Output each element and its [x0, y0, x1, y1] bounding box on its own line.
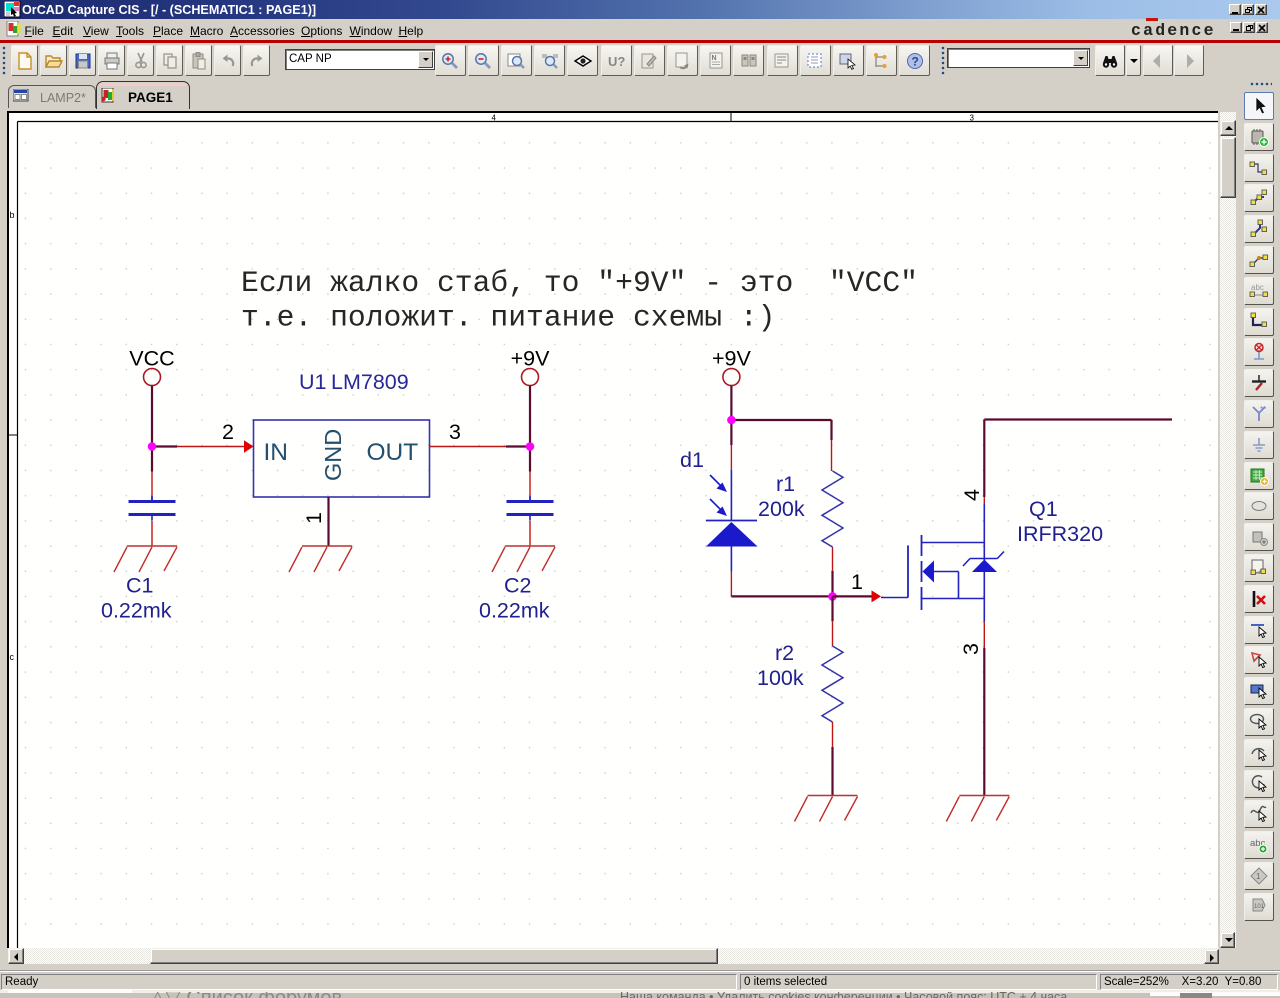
svg-text:VCC: VCC — [129, 347, 174, 371]
svg-text:4: 4 — [492, 114, 497, 123]
svg-text:4: 4 — [960, 489, 984, 501]
svg-text:1: 1 — [302, 512, 326, 524]
svg-text:1: 1 — [851, 570, 863, 594]
svg-text:200k: 200k — [758, 497, 805, 521]
svg-text:C1: C1 — [126, 574, 153, 598]
svg-text:r2: r2 — [775, 641, 794, 665]
svg-text:Если жалко стаб, то "+9V" - эт: Если жалко стаб, то "+9V" - это "VCC" — [241, 266, 918, 300]
svg-text:IRFR320: IRFR320 — [1017, 522, 1103, 546]
svg-text:C2: C2 — [504, 574, 531, 598]
svg-text:OUT: OUT — [367, 439, 419, 466]
svg-text:d1: d1 — [680, 448, 704, 472]
svg-text:2: 2 — [222, 420, 234, 444]
svg-text:GND: GND — [320, 429, 346, 481]
svg-text:U1: U1 — [299, 370, 326, 394]
svg-text:3: 3 — [449, 420, 461, 444]
svg-text:+9V: +9V — [712, 347, 752, 371]
svg-text:c: c — [10, 652, 15, 662]
svg-text:100k: 100k — [757, 666, 804, 690]
svg-text:LM7809: LM7809 — [331, 370, 409, 394]
svg-text:т.е. положит. питание схемы :): т.е. положит. питание схемы :) — [241, 301, 775, 335]
svg-text:b: b — [10, 210, 15, 220]
svg-text:+9V: +9V — [511, 347, 551, 371]
svg-text:3: 3 — [970, 114, 975, 123]
svg-text:3: 3 — [959, 643, 983, 655]
svg-text:Q1: Q1 — [1029, 497, 1058, 521]
svg-text:0.22mk: 0.22mk — [479, 599, 550, 623]
svg-text:IN: IN — [264, 439, 289, 466]
svg-text:r1: r1 — [776, 472, 795, 496]
svg-text:0.22mk: 0.22mk — [101, 599, 172, 623]
